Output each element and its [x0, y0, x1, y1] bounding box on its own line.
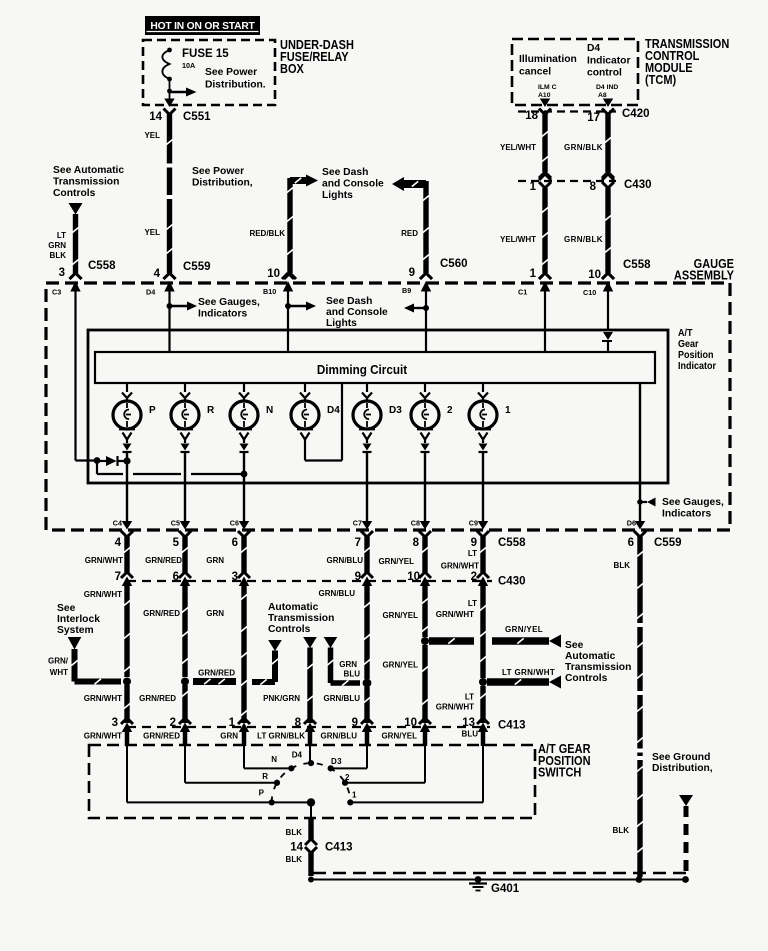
svg-text:control: control — [587, 68, 622, 79]
svg-text:GRN/WHT: GRN/WHT — [85, 556, 123, 565]
svg-text:GRN: GRN — [48, 241, 66, 250]
svg-text:Dimming Circuit: Dimming Circuit — [317, 362, 408, 377]
svg-text:C559: C559 — [183, 261, 211, 273]
svg-text:See Gauges,: See Gauges, — [662, 497, 724, 508]
svg-text:GRN/RED: GRN/RED — [145, 556, 182, 565]
svg-text:10: 10 — [588, 269, 601, 281]
svg-text:YEL: YEL — [144, 131, 160, 140]
svg-text:See Dash: See Dash — [322, 167, 368, 178]
svg-text:and Console: and Console — [322, 179, 384, 190]
svg-text:C413: C413 — [498, 720, 526, 732]
svg-text:C7: C7 — [353, 519, 362, 528]
svg-text:3: 3 — [112, 717, 118, 729]
svg-text:See Power: See Power — [192, 166, 244, 177]
svg-text:13: 13 — [462, 717, 475, 729]
svg-text:BLK: BLK — [613, 826, 630, 835]
svg-text:GRN/RED: GRN/RED — [198, 669, 235, 678]
svg-text:G401: G401 — [491, 883, 520, 895]
svg-text:2: 2 — [345, 773, 350, 782]
svg-text:A10: A10 — [538, 92, 551, 99]
svg-text:9: 9 — [352, 717, 358, 729]
svg-text:Controls: Controls — [268, 624, 311, 635]
svg-text:BLK: BLK — [286, 855, 303, 864]
svg-text:LT GRN/BLK: LT GRN/BLK — [257, 732, 305, 741]
svg-text:14: 14 — [149, 111, 162, 123]
svg-text:Distribution,: Distribution, — [192, 178, 253, 189]
svg-text:GRN/BLK: GRN/BLK — [564, 143, 603, 152]
svg-text:C430: C430 — [624, 179, 652, 191]
svg-text:BLK: BLK — [50, 251, 67, 260]
svg-text:ILM C: ILM C — [538, 84, 557, 91]
svg-text:C413: C413 — [325, 842, 353, 854]
svg-text:6: 6 — [232, 537, 238, 549]
svg-text:2: 2 — [170, 717, 176, 729]
svg-text:GRN/RED: GRN/RED — [143, 609, 180, 618]
svg-text:GRN: GRN — [339, 660, 357, 669]
svg-text:C9: C9 — [469, 519, 478, 528]
svg-text:C6: C6 — [230, 519, 239, 528]
svg-text:RED: RED — [401, 229, 418, 238]
svg-text:C3: C3 — [52, 288, 61, 297]
svg-text:R: R — [207, 405, 215, 416]
svg-text:8: 8 — [295, 717, 302, 729]
svg-text:GRN/YEL: GRN/YEL — [505, 625, 543, 634]
svg-text:4: 4 — [154, 268, 161, 280]
svg-text:Indicator: Indicator — [587, 56, 630, 67]
svg-text:C10: C10 — [583, 288, 596, 297]
svg-text:P: P — [149, 405, 156, 416]
svg-text:C430: C430 — [498, 576, 526, 588]
svg-text:RED/BLK: RED/BLK — [249, 229, 285, 238]
svg-text:Distribution,: Distribution, — [652, 763, 713, 774]
svg-text:N: N — [271, 755, 277, 764]
svg-text:BLK: BLK — [286, 828, 303, 837]
svg-text:GRN: GRN — [206, 556, 224, 565]
svg-text:D3: D3 — [331, 757, 342, 766]
svg-text:GRN/YEL: GRN/YEL — [378, 557, 414, 566]
svg-text:Lights: Lights — [322, 190, 353, 201]
svg-text:See Automatic: See Automatic — [53, 165, 124, 176]
svg-text:B10: B10 — [263, 287, 276, 296]
svg-text:GRN: GRN — [206, 609, 224, 618]
svg-text:9: 9 — [471, 537, 477, 549]
svg-text:B9: B9 — [402, 286, 411, 295]
svg-text:2: 2 — [471, 571, 477, 583]
svg-text:C4: C4 — [113, 519, 122, 528]
svg-text:10: 10 — [267, 268, 280, 280]
svg-text:N: N — [266, 405, 273, 416]
svg-text:WHT: WHT — [50, 668, 68, 677]
svg-text:C1: C1 — [518, 288, 527, 297]
svg-text:C560: C560 — [440, 258, 468, 270]
svg-text:9: 9 — [409, 267, 415, 279]
svg-text:GRN/WHT: GRN/WHT — [436, 610, 474, 619]
svg-text:See: See — [565, 640, 584, 651]
svg-text:GRN/WHT: GRN/WHT — [84, 732, 122, 741]
svg-text:C5: C5 — [171, 519, 180, 528]
svg-text:See Power: See Power — [205, 67, 257, 78]
svg-text:Gear: Gear — [678, 339, 699, 351]
svg-text:D4: D4 — [292, 751, 303, 760]
svg-text:YEL/WHT: YEL/WHT — [500, 235, 536, 244]
svg-text:10A: 10A — [182, 61, 195, 70]
svg-text:Indicator: Indicator — [678, 361, 716, 373]
svg-text:GRN/YEL: GRN/YEL — [382, 611, 418, 620]
svg-text:LT: LT — [468, 599, 477, 608]
svg-text:YEL: YEL — [144, 228, 160, 237]
svg-text:BLU: BLU — [462, 730, 479, 739]
svg-text:Automatic: Automatic — [268, 602, 319, 613]
svg-text:C8: C8 — [411, 519, 420, 528]
svg-text:See: See — [57, 603, 76, 614]
svg-text:Illumination: Illumination — [519, 54, 577, 65]
svg-text:1: 1 — [505, 405, 511, 416]
svg-text:System: System — [57, 625, 94, 636]
svg-text:GRN/WHT: GRN/WHT — [84, 694, 122, 703]
svg-text:GRN/YEL: GRN/YEL — [381, 732, 417, 741]
svg-text:6: 6 — [628, 537, 634, 549]
svg-text:GRN/WHT: GRN/WHT — [441, 562, 479, 571]
svg-text:4: 4 — [115, 537, 122, 549]
svg-text:C420: C420 — [622, 108, 650, 120]
svg-text:18: 18 — [525, 110, 538, 122]
svg-text:cancel: cancel — [519, 67, 551, 78]
svg-text:R: R — [262, 772, 268, 781]
svg-text:1: 1 — [530, 181, 537, 193]
svg-text:(TCM): (TCM) — [645, 73, 676, 87]
svg-text:and Console: and Console — [326, 307, 388, 318]
svg-text:FUSE 15: FUSE 15 — [182, 48, 229, 60]
svg-text:GRN/YEL: GRN/YEL — [382, 661, 418, 670]
svg-text:8: 8 — [413, 537, 420, 549]
svg-text:GRN/BLU: GRN/BLU — [319, 589, 356, 598]
svg-text:A8: A8 — [598, 92, 607, 99]
svg-text:3: 3 — [59, 267, 65, 279]
svg-text:C551: C551 — [183, 111, 211, 123]
svg-text:See Ground: See Ground — [652, 752, 710, 763]
svg-text:1: 1 — [229, 717, 236, 729]
svg-text:YEL/WHT: YEL/WHT — [500, 143, 536, 152]
svg-text:C558: C558 — [498, 537, 526, 549]
svg-text:LT: LT — [465, 693, 474, 702]
svg-text:9: 9 — [355, 571, 361, 583]
svg-text:Automatic: Automatic — [565, 651, 616, 662]
svg-text:A/T: A/T — [678, 328, 693, 340]
svg-text:P: P — [259, 789, 265, 798]
svg-text:PNK/GRN: PNK/GRN — [263, 694, 300, 703]
svg-text:Transmission: Transmission — [53, 177, 119, 188]
svg-text:1: 1 — [530, 268, 537, 280]
svg-text:D4: D4 — [587, 43, 600, 54]
svg-text:LT: LT — [468, 549, 477, 558]
svg-text:GRN/: GRN/ — [48, 657, 69, 666]
svg-text:GRN/WHT: GRN/WHT — [84, 590, 122, 599]
svg-text:10: 10 — [407, 571, 420, 583]
svg-text:GRN/BLU: GRN/BLU — [321, 732, 358, 741]
svg-text:5: 5 — [173, 537, 180, 549]
svg-text:Lights: Lights — [326, 318, 357, 329]
svg-text:Transmission: Transmission — [268, 613, 334, 624]
svg-text:GRN/BLK: GRN/BLK — [564, 235, 603, 244]
svg-text:LT: LT — [57, 231, 66, 240]
svg-text:17: 17 — [587, 112, 600, 124]
svg-text:See Gauges,: See Gauges, — [198, 297, 260, 308]
svg-text:GRN/WHT: GRN/WHT — [436, 703, 474, 712]
svg-text:7: 7 — [355, 537, 361, 549]
svg-text:Controls: Controls — [53, 188, 96, 199]
svg-text:D4 IND: D4 IND — [596, 84, 618, 91]
svg-text:Transmission: Transmission — [565, 662, 631, 673]
svg-text:3: 3 — [232, 571, 238, 583]
svg-text:D6: D6 — [627, 519, 636, 528]
svg-text:ASSEMBLY: ASSEMBLY — [674, 269, 734, 283]
svg-text:C558: C558 — [88, 260, 116, 272]
svg-text:GRN/BLU: GRN/BLU — [324, 694, 361, 703]
svg-text:2: 2 — [447, 405, 453, 416]
svg-text:D3: D3 — [389, 405, 402, 416]
svg-text:Interlock: Interlock — [57, 614, 100, 625]
svg-text:LT GRN/WHT: LT GRN/WHT — [502, 668, 555, 677]
svg-text:6: 6 — [173, 571, 179, 583]
svg-text:Indicators: Indicators — [662, 509, 711, 520]
svg-text:C558: C558 — [623, 259, 651, 271]
svg-text:BOX: BOX — [280, 62, 304, 76]
svg-text:Controls: Controls — [565, 673, 608, 684]
svg-text:7: 7 — [115, 571, 121, 583]
svg-text:14: 14 — [290, 842, 303, 854]
svg-text:GRN/RED: GRN/RED — [143, 732, 180, 741]
svg-text:BLK: BLK — [614, 561, 631, 570]
svg-text:Position: Position — [678, 350, 714, 362]
svg-text:D4: D4 — [327, 405, 340, 416]
svg-text:D4: D4 — [146, 288, 155, 297]
svg-text:GRN/BLU: GRN/BLU — [327, 556, 364, 565]
svg-text:Indicators: Indicators — [198, 309, 247, 320]
svg-text:BLU: BLU — [344, 670, 361, 679]
svg-text:HOT IN ON OR START: HOT IN ON OR START — [150, 21, 255, 32]
svg-text:1: 1 — [352, 791, 357, 800]
svg-text:10: 10 — [404, 717, 417, 729]
svg-text:SWITCH: SWITCH — [538, 766, 581, 780]
svg-text:8: 8 — [590, 181, 597, 193]
svg-text:See Dash: See Dash — [326, 296, 372, 307]
svg-text:GRN/RED: GRN/RED — [139, 694, 176, 703]
svg-text:GRN: GRN — [220, 732, 238, 741]
svg-text:C559: C559 — [654, 537, 682, 549]
svg-text:Distribution.: Distribution. — [205, 80, 266, 91]
